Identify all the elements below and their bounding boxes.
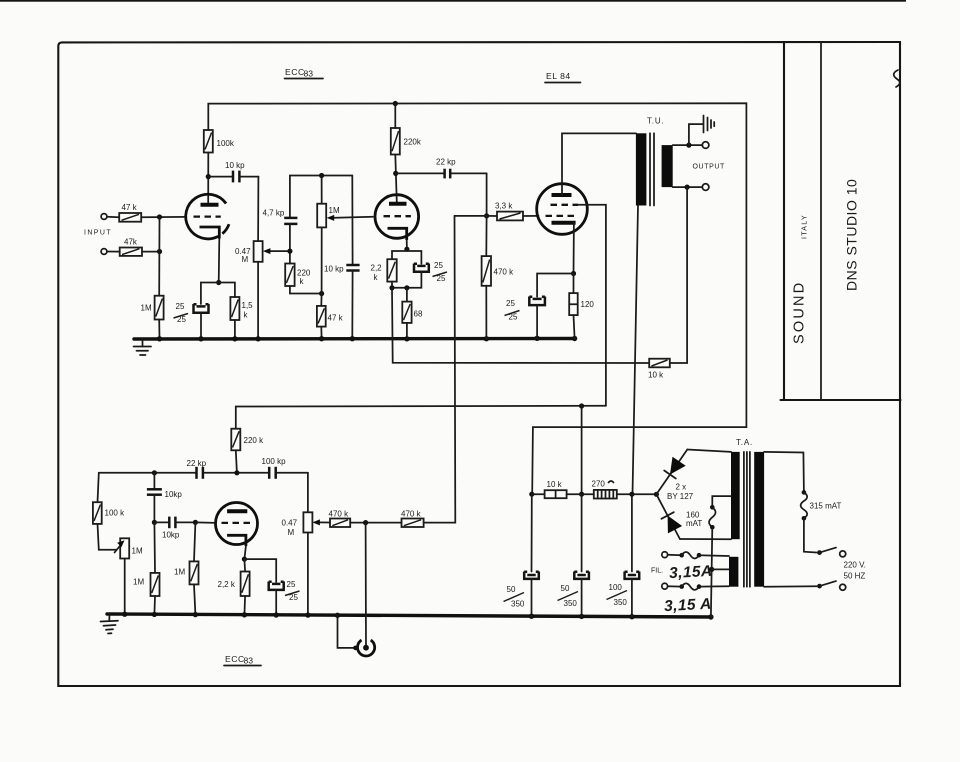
wire left leg down bbox=[98, 473, 99, 502]
tone network: wire top bbox=[290, 175, 352, 177]
input terminal 1 bbox=[101, 214, 107, 220]
node (plate V1b) bbox=[393, 171, 398, 176]
potentiometer 0.47M (volume) bbox=[235, 241, 287, 264]
node (grid osc) bbox=[193, 520, 198, 525]
wire secondary bottom to output bbox=[673, 186, 703, 188]
wire node B down bbox=[581, 406, 583, 494]
T.A. core bbox=[743, 452, 745, 587]
resistor 1M (grid leak V1a) bbox=[141, 296, 164, 320]
triode V1b ECC83 bbox=[375, 195, 419, 240]
resistor 1,5k (cathode V1a) bbox=[230, 297, 253, 320]
node (filter node B) bbox=[579, 492, 584, 497]
svg-text:2,2: 2,2 bbox=[371, 264, 383, 273]
svg-text:25: 25 bbox=[434, 261, 443, 270]
oscillator top rail with caps bbox=[99, 472, 197, 474]
resistor 47k (lower input) bbox=[120, 238, 142, 256]
node (diode junction) bbox=[654, 492, 659, 497]
capacitor 25/25 (cathode V1a) bbox=[174, 302, 209, 324]
svg-text:220 k: 220 k bbox=[244, 436, 265, 445]
inductor 270 (choke) bbox=[582, 480, 632, 499]
svg-text:10kp: 10kp bbox=[162, 531, 180, 540]
T.U. secondary winding bbox=[662, 145, 673, 187]
capacitor 22kp (osc) bbox=[187, 459, 207, 479]
node (grid EL84) bbox=[484, 213, 489, 218]
node bbox=[152, 520, 157, 525]
svg-text:T.A.: T.A. bbox=[736, 438, 753, 447]
wire CT down to ground bus bbox=[711, 527, 712, 617]
lower bus junction dots bbox=[122, 612, 127, 617]
potentiometer 0.47M (depth) bbox=[282, 512, 331, 537]
svg-text:100: 100 bbox=[609, 583, 623, 592]
node (cathode V1b) bbox=[404, 247, 409, 252]
resistor 470k (tremolo out #2) bbox=[401, 510, 424, 528]
switch (mains pole 2) bbox=[817, 581, 846, 590]
svg-text:1M: 1M bbox=[329, 206, 340, 215]
node bbox=[319, 291, 324, 296]
svg-text:220 V.: 220 V. bbox=[844, 561, 866, 570]
svg-text:EL 84: EL 84 bbox=[546, 71, 571, 81]
svg-text:470 k: 470 k bbox=[329, 510, 350, 519]
wire bbox=[107, 251, 120, 253]
svg-text:ECC: ECC bbox=[225, 654, 245, 664]
svg-text:10 kp: 10 kp bbox=[225, 161, 245, 170]
wire bbox=[141, 216, 186, 218]
title block left edge bbox=[783, 42, 785, 400]
svg-text:50 HZ: 50 HZ bbox=[844, 572, 866, 581]
filament terminal 1 bbox=[662, 552, 668, 558]
resistor 1M (osc divider left) bbox=[133, 522, 160, 614]
potentiometer 1M (speed) bbox=[115, 538, 143, 558]
resistor 47k (tone, to ground) bbox=[317, 306, 344, 327]
wire grid osc bbox=[195, 521, 216, 524]
svg-text:47 k: 47 k bbox=[122, 203, 138, 212]
node: 220k plate resistor tap on rail bbox=[393, 101, 398, 106]
svg-text:2,2 k: 2,2 k bbox=[218, 580, 236, 589]
node (filter node C) bbox=[529, 492, 534, 497]
wire cathode osc bbox=[244, 546, 246, 559]
svg-text:2 x: 2 x bbox=[676, 483, 687, 492]
resistor 220k (plate load V1b) bbox=[391, 128, 422, 155]
output terminal 2 bbox=[702, 184, 709, 191]
filament terminal 2 bbox=[662, 583, 668, 589]
wire plate lead bbox=[207, 153, 209, 205]
svg-text:k: k bbox=[244, 311, 249, 320]
fuse 315 mAT bbox=[801, 490, 842, 520]
svg-text:10 kp: 10 kp bbox=[324, 265, 344, 274]
border squiggle artifact top right bbox=[894, 70, 900, 87]
svg-text:22 kp: 22 kp bbox=[187, 459, 207, 468]
svg-text:25: 25 bbox=[506, 299, 515, 308]
triode V2 ECC83 (oscillator) bbox=[216, 503, 258, 547]
jack connector bbox=[353, 640, 375, 656]
wire bbox=[107, 216, 119, 219]
wire down to 0.47M pot bbox=[257, 177, 259, 242]
wire cathode loop bottom bbox=[392, 272, 421, 288]
bus junction dots bbox=[157, 336, 162, 341]
wire upper diode to HT secondary top bbox=[687, 450, 731, 452]
capacitor 4,7kp bbox=[263, 176, 298, 264]
wire bbox=[350, 522, 401, 524]
svg-text:470 k: 470 k bbox=[494, 268, 515, 277]
wire bbox=[234, 320, 236, 339]
svg-text:ECC: ECC bbox=[285, 67, 305, 77]
capacitor 22kp (coupling V1b out) bbox=[396, 158, 487, 179]
svg-text:22 kp: 22 kp bbox=[436, 158, 456, 167]
svg-text:83: 83 bbox=[304, 69, 314, 79]
node (B+ branch down to filter) bbox=[579, 403, 584, 408]
capacitor 50/350 (filter C1) bbox=[504, 494, 539, 616]
svg-text:100 kp: 100 kp bbox=[262, 457, 287, 466]
capacitor 50/350 (filter C2) bbox=[558, 494, 589, 616]
svg-text:T.U.: T.U. bbox=[647, 117, 664, 126]
node (plate V1a / coupling) bbox=[206, 174, 211, 179]
svg-text:350: 350 bbox=[564, 599, 578, 608]
wire cathode splitter bbox=[201, 283, 235, 305]
wire to grid node EL84 bbox=[486, 173, 488, 216]
svg-text:k: k bbox=[300, 277, 305, 286]
resistor 3,3k (grid stopper EL84) bbox=[487, 202, 539, 221]
T.A. HT secondary winding bbox=[731, 452, 740, 539]
node (NFB injection) bbox=[389, 285, 394, 290]
wire cathode splitter bbox=[244, 559, 276, 582]
resistor 10k (feedback) bbox=[648, 359, 670, 380]
wire feedback tap down bbox=[670, 187, 687, 363]
wire HT center tap bbox=[712, 496, 731, 507]
svg-text:25: 25 bbox=[177, 315, 186, 324]
svg-text:1M: 1M bbox=[141, 304, 152, 313]
ground bus (upper) bbox=[134, 337, 575, 341]
svg-text:470 k: 470 k bbox=[401, 510, 422, 519]
pentode EL84 bbox=[537, 184, 588, 235]
wire plate lead V1b bbox=[394, 104, 396, 129]
wire plate lead osc bbox=[236, 450, 237, 473]
svg-text:M: M bbox=[288, 528, 295, 537]
svg-text:270: 270 bbox=[592, 480, 606, 489]
wire pot bottom bbox=[307, 533, 309, 616]
wire: top B+ rail bbox=[208, 103, 746, 494]
svg-text:1M: 1M bbox=[132, 547, 143, 556]
svg-text:350: 350 bbox=[511, 600, 525, 609]
svg-text:25: 25 bbox=[289, 593, 298, 602]
svg-text:10 k: 10 k bbox=[648, 371, 664, 380]
svg-text:FIL.: FIL. bbox=[651, 568, 663, 575]
wire node A to diode junction bbox=[632, 493, 657, 495]
wire cathode V1b bbox=[406, 240, 408, 249]
wire to speed pot wiper bbox=[98, 524, 117, 550]
node (junction input2 to grid line) bbox=[157, 249, 162, 254]
capacitor 10kp (osc #2 horizontal) bbox=[154, 517, 195, 540]
node (cathode osc) bbox=[242, 557, 247, 562]
wire bbox=[158, 320, 160, 339]
fuse 160 mAT bbox=[686, 505, 716, 530]
T.U. primary winding bbox=[636, 133, 647, 205]
resistor 2,2k (cathode V1b) bbox=[371, 259, 397, 282]
potentiometer 1M (tone) bbox=[317, 176, 373, 228]
resistor 470k (grid leak EL84) bbox=[482, 216, 514, 339]
svg-text:220k: 220k bbox=[404, 138, 422, 147]
resistor 120 (cathode EL84) bbox=[569, 274, 594, 339]
svg-text:OUTPUT: OUTPUT bbox=[693, 164, 725, 171]
wire secondary top to output bbox=[673, 144, 703, 146]
wire cathode V1a bbox=[218, 239, 221, 283]
wire sleeve to ground bbox=[338, 615, 355, 648]
node bbox=[319, 173, 324, 178]
svg-text:3,3 k: 3,3 k bbox=[495, 202, 513, 211]
svg-text:10kp: 10kp bbox=[165, 490, 183, 499]
resistor 47k (upper input) bbox=[119, 203, 141, 222]
svg-text:M: M bbox=[242, 255, 249, 264]
ground symbol (upper bus) bbox=[134, 339, 152, 355]
resistor 68 (to ground) bbox=[402, 288, 423, 339]
wire tip from tremolo tap bbox=[365, 523, 367, 648]
node (jack tap) bbox=[363, 520, 368, 525]
svg-text:25: 25 bbox=[176, 302, 185, 311]
diode BY127 (lower) bbox=[656, 494, 682, 539]
resistor 100k (plate load V1a) bbox=[204, 130, 235, 153]
diode BY127 (upper) bbox=[656, 450, 687, 495]
wire bbox=[158, 217, 160, 296]
T.A. primary winding bbox=[754, 452, 764, 587]
wire pot to node bbox=[321, 227, 323, 293]
wire plate EL84 to T.U. bbox=[562, 133, 636, 195]
node A (grid V1a) bbox=[157, 214, 162, 219]
resistor 220k (tone) bbox=[285, 264, 311, 287]
capacitor 25/25 (cathode osc) bbox=[269, 580, 300, 615]
resistor 220k (plate load osc) bbox=[231, 429, 264, 451]
capacitor 25/25 (cathode V1b) bbox=[414, 261, 447, 283]
wires 47k bbox=[320, 294, 322, 306]
svg-text:1M: 1M bbox=[174, 568, 185, 577]
switch (mains pole 1) bbox=[817, 548, 846, 557]
resistor 1M (osc grid leak) bbox=[174, 522, 199, 614]
svg-text:10 k: 10 k bbox=[547, 480, 563, 489]
wire NFB line down bbox=[392, 288, 649, 363]
svg-text:BY 127: BY 127 bbox=[667, 492, 694, 501]
wire T.U. primary bottom to B+ node bbox=[633, 206, 639, 495]
svg-text:350: 350 bbox=[614, 598, 628, 607]
resistor 470k (tremolo out #1) bbox=[329, 510, 351, 528]
wire L to 47k node bbox=[290, 286, 322, 294]
capacitor 10kp (tone, to ground) bbox=[324, 176, 360, 339]
wire primary top to fuse bbox=[764, 452, 804, 493]
node (wiper feed) bbox=[287, 249, 292, 254]
node (cathode split) bbox=[216, 280, 221, 285]
svg-text:DNS STUDIO 10: DNS STUDIO 10 bbox=[844, 179, 860, 291]
capacitor 10kp (coupling V1a out) bbox=[208, 161, 258, 182]
node (osc rail left cap junction) bbox=[152, 470, 157, 475]
wire screen grid EL84 bbox=[578, 205, 606, 406]
svg-text:1M: 1M bbox=[133, 578, 144, 587]
triode V1a ECC83 bbox=[186, 194, 229, 239]
svg-text:ITALY: ITALY bbox=[802, 214, 809, 239]
svg-text:3,15 A: 3,15 A bbox=[664, 596, 712, 615]
input terminal 2 bbox=[101, 249, 107, 255]
capacitor 25/25 (cathode EL84) bbox=[505, 274, 574, 339]
wire cathode EL84 bbox=[573, 223, 575, 274]
scan top edge line bbox=[0, 0, 906, 2]
svg-text:83: 83 bbox=[244, 656, 254, 666]
wire tremolo inject up to EL84 grid bbox=[424, 216, 456, 523]
svg-text:1,5: 1,5 bbox=[242, 301, 254, 310]
fuse 3,15A (lower) bbox=[668, 583, 729, 590]
svg-text:315 mAT: 315 mAT bbox=[810, 502, 842, 511]
node (cathode EL84) bbox=[571, 271, 576, 276]
wire tremolo inject bbox=[455, 215, 487, 217]
svg-text:100 k: 100 k bbox=[105, 509, 126, 518]
node (filament center tap) bbox=[709, 567, 714, 572]
outer drawing border bbox=[58, 42, 900, 686]
svg-text:25: 25 bbox=[509, 313, 518, 322]
svg-text:3,15A: 3,15A bbox=[669, 563, 713, 582]
wire lower diode to HT secondary bottom bbox=[680, 538, 731, 540]
capacitor 10kp (osc #1 vertical) bbox=[147, 473, 182, 523]
title block divider bbox=[820, 42, 822, 400]
wire bbox=[200, 313, 202, 339]
svg-text:47k: 47k bbox=[124, 238, 138, 247]
ground symbol (output, horizontal) bbox=[689, 116, 714, 146]
node (osc plate junction) bbox=[234, 470, 239, 475]
node (68 top) bbox=[404, 285, 409, 290]
resistor 100k (osc) bbox=[93, 502, 125, 524]
resistor 2,2k (cathode osc) bbox=[218, 559, 250, 615]
fuse 3,15A (upper) bbox=[668, 552, 729, 559]
T.A. filament winding bbox=[729, 557, 738, 587]
svg-text:SOUND: SOUND bbox=[792, 281, 808, 344]
wire pot bottom to ground bus bbox=[257, 262, 259, 339]
svg-text:25: 25 bbox=[437, 274, 446, 283]
wire osc rail right leg down bbox=[307, 473, 309, 513]
T.U. core bbox=[649, 133, 651, 205]
output terminal 1 bbox=[702, 142, 709, 149]
svg-text:k: k bbox=[374, 273, 379, 282]
wire primary bottom to switch 2 bbox=[764, 585, 816, 588]
capacitor 100kp (osc) bbox=[262, 457, 287, 479]
svg-text:100k: 100k bbox=[217, 139, 235, 148]
svg-text:47 k: 47 k bbox=[328, 314, 344, 323]
svg-text:mAT: mAT bbox=[686, 519, 702, 528]
resistor 10k (PS filter) bbox=[532, 480, 582, 498]
svg-text:25: 25 bbox=[287, 580, 296, 589]
wire bbox=[142, 251, 160, 253]
wire filament CT bbox=[712, 568, 729, 570]
wire B+ feed line (node B to oscillator and screen) bbox=[236, 406, 606, 429]
svg-text:120: 120 bbox=[581, 300, 595, 309]
title block bottom edge bbox=[781, 399, 901, 401]
wire fuse to switch 1 bbox=[804, 518, 817, 552]
wire pot bottom bbox=[124, 559, 126, 615]
wire cathode loop top bbox=[392, 251, 421, 264]
svg-text:68: 68 bbox=[414, 310, 423, 319]
svg-text:50: 50 bbox=[507, 585, 516, 594]
svg-text:INPUT: INPUT bbox=[84, 230, 112, 237]
capacitor 100/350 (filter C3) bbox=[607, 494, 640, 617]
ground symbol (lower bus) bbox=[101, 614, 119, 634]
svg-text:50: 50 bbox=[561, 584, 570, 593]
ground bus (lower) bbox=[107, 614, 711, 617]
node (rectifier output node A) bbox=[629, 492, 634, 497]
svg-text:4,7 kp: 4,7 kp bbox=[263, 209, 285, 218]
svg-text:0.47: 0.47 bbox=[282, 519, 298, 528]
